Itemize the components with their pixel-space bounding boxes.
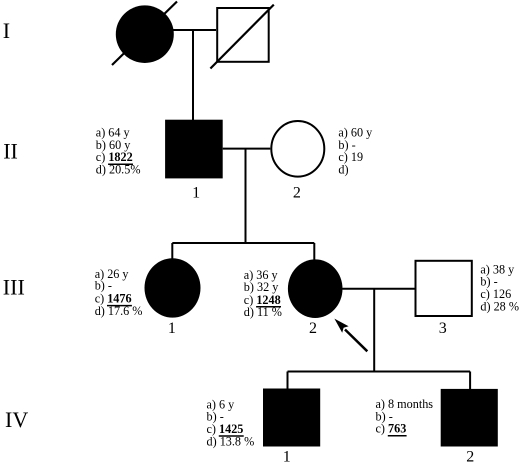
svg-text:I: I <box>3 18 10 43</box>
individual IV-1 affected male (filled square) <box>263 389 320 447</box>
annotation block III-1 <box>95 267 143 318</box>
descent line I to II-1 <box>192 30 194 120</box>
annotation block IV-2 <box>376 397 434 436</box>
svg-text:d): d) <box>338 163 348 177</box>
annotation block IV-1 <box>207 397 255 448</box>
descent line III to IV sibship <box>373 289 375 372</box>
svg-text:1: 1 <box>283 449 291 464</box>
drop line to IV-2 <box>469 372 471 390</box>
descent line II to III sibship <box>245 149 247 243</box>
drop line to IV-1 <box>287 372 289 390</box>
deceased slash I-1 <box>112 2 177 66</box>
sibship line III <box>172 242 314 244</box>
svg-text:b) 32 y: b) 32 y <box>244 280 279 294</box>
svg-text:II: II <box>3 138 18 163</box>
annotation block II-1 <box>96 126 141 177</box>
svg-text:d) 20.5%: d) 20.5% <box>96 162 141 176</box>
proband arrow <box>334 319 367 352</box>
individual IV-2 affected male (filled square) <box>441 389 498 447</box>
sibship line IV <box>288 371 471 373</box>
svg-text:2: 2 <box>466 449 474 464</box>
drop line to III-2 <box>313 243 315 261</box>
individual I-1 affected female (filled circle) <box>116 5 174 63</box>
svg-text:d) 17.6 %: d) 17.6 % <box>95 304 143 318</box>
svg-text:d) 11 %: d) 11 % <box>244 305 282 319</box>
individual III-2 affected female proband (filled circle) <box>288 259 343 318</box>
annotation block III-3 <box>480 262 519 313</box>
svg-text:c) 763: c) 763 <box>376 422 407 436</box>
annotation block II-2 <box>338 126 373 177</box>
svg-text:1: 1 <box>168 320 176 337</box>
annotation block III-2 <box>244 268 282 319</box>
svg-text:III: III <box>3 275 25 300</box>
individual II-2 female (open circle) <box>271 121 324 177</box>
individual II-1 affected male (filled square) <box>165 120 223 179</box>
couple line III-2 to III-3 <box>343 288 415 290</box>
couple line I-1 to I-2 <box>172 29 216 31</box>
svg-text:2: 2 <box>293 185 301 202</box>
individual III-1 affected female (filled circle) <box>145 258 201 317</box>
svg-text:1: 1 <box>192 185 200 202</box>
deceased slash I-2 <box>210 5 273 69</box>
svg-text:IV: IV <box>5 407 28 432</box>
couple line II-1 to II-2 <box>223 148 271 150</box>
svg-text:b) -: b) - <box>95 279 112 293</box>
individual I-2 male (open square) <box>217 8 269 62</box>
drop line to III-1 <box>171 243 173 260</box>
svg-text:d) 13.8 %: d) 13.8 % <box>207 434 255 448</box>
svg-text:2: 2 <box>309 320 317 337</box>
svg-text:d) 28 %: d) 28 % <box>480 299 519 313</box>
individual III-3 male (open square) <box>416 261 472 316</box>
svg-text:3: 3 <box>439 320 447 337</box>
